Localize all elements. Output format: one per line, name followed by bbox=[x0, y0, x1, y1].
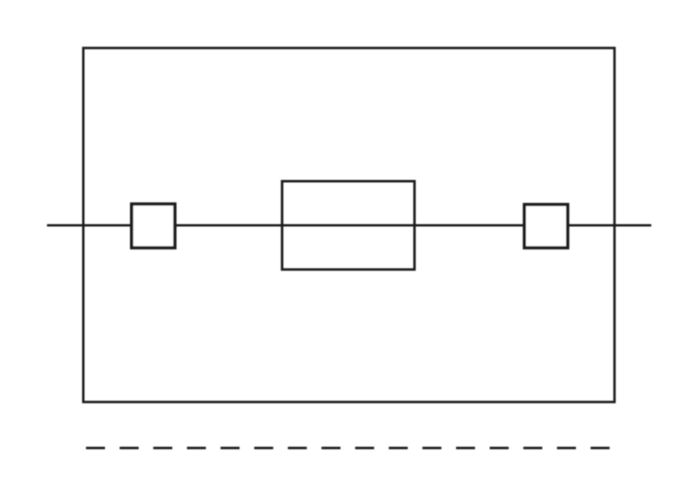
mounting rail (dashed line) bbox=[86, 447, 610, 450]
terminal block housing outline bbox=[83, 48, 614, 402]
clamping point contact (left) bbox=[132, 204, 175, 248]
fuse F1 bbox=[282, 181, 414, 269]
clamping point contact (right) bbox=[524, 205, 567, 248]
wire (through conductor, left lead to right lead) bbox=[47, 224, 651, 226]
